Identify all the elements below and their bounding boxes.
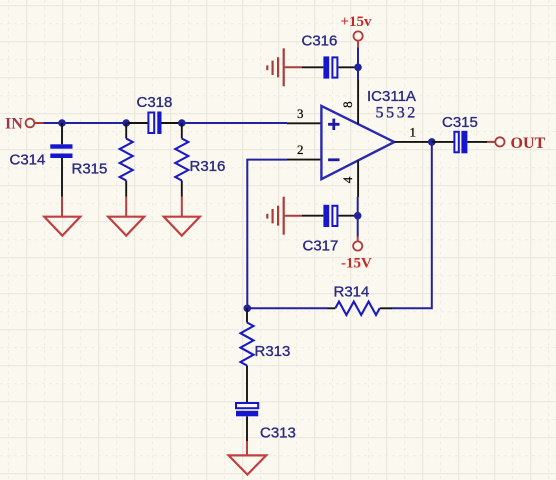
wire -15V rail bbox=[357, 197, 359, 237]
wire to pin 3 bbox=[182, 122, 287, 124]
resistor R316 bbox=[175, 123, 188, 197]
svg-text:IC311A: IC311A bbox=[367, 88, 416, 105]
junction node at R315 bbox=[122, 119, 130, 127]
ground (R315) bbox=[108, 197, 144, 236]
op-amp plus input mark bbox=[328, 119, 339, 130]
op-amp pin 4 lead bbox=[357, 160, 359, 197]
resistor R315 bbox=[120, 123, 133, 197]
power port +15v bbox=[354, 31, 363, 47]
svg-text:R313: R313 bbox=[255, 343, 291, 360]
wire inverting node bbox=[247, 307, 327, 309]
svg-text:1: 1 bbox=[410, 125, 417, 140]
svg-text:R315: R315 bbox=[72, 161, 108, 178]
wire input rail bbox=[44, 122, 128, 124]
capacitor C316 bbox=[302, 56, 358, 78]
svg-text:R316: R316 bbox=[190, 158, 226, 175]
wire feedback bbox=[392, 142, 432, 308]
op-amp U1 pin 3 lead bbox=[287, 122, 322, 124]
svg-text:C316: C316 bbox=[302, 32, 338, 49]
ground (R316) bbox=[164, 197, 200, 236]
svg-text:3: 3 bbox=[297, 106, 304, 121]
resistor R313 bbox=[241, 308, 254, 402]
port OUT bbox=[487, 137, 505, 146]
svg-text:C313: C313 bbox=[260, 425, 296, 442]
capacitor C313 bbox=[236, 403, 258, 441]
resistor R314 bbox=[328, 302, 393, 315]
power port -15V bbox=[353, 237, 362, 251]
op-amp IC311A body bbox=[321, 106, 394, 179]
svg-text:R314: R314 bbox=[334, 284, 370, 301]
op-amp pin 8 lead bbox=[357, 80, 359, 124]
wire +15v rail bbox=[357, 47, 359, 80]
capacitor C315 bbox=[432, 131, 487, 154]
svg-text:C318: C318 bbox=[137, 94, 173, 111]
port IN bbox=[26, 119, 44, 128]
junction node output bbox=[428, 138, 436, 146]
svg-text:5532: 5532 bbox=[376, 105, 418, 122]
svg-text:+15v: +15v bbox=[341, 14, 373, 30]
ground (C314) bbox=[44, 197, 80, 236]
capacitor C318 bbox=[128, 112, 182, 135]
svg-text:IN: IN bbox=[5, 116, 23, 133]
junction node +15v bbox=[354, 64, 362, 72]
wire pin2 net bbox=[247, 160, 287, 309]
junction node at R316 bbox=[178, 119, 186, 127]
capacitor C314 bbox=[50, 123, 72, 197]
junction node inverting bbox=[244, 305, 252, 313]
op-amp minus input mark bbox=[328, 158, 339, 161]
capacitor C317 bbox=[302, 205, 358, 227]
svg-text:8: 8 bbox=[340, 101, 355, 108]
junction node at C314 bbox=[58, 119, 66, 127]
op-amp U1 pin 2 lead bbox=[287, 159, 322, 161]
svg-text:4: 4 bbox=[340, 176, 355, 183]
svg-text:C314: C314 bbox=[10, 152, 46, 169]
svg-text:-15V: -15V bbox=[341, 256, 372, 272]
svg-text:C315: C315 bbox=[442, 114, 478, 131]
svg-text:2: 2 bbox=[297, 142, 304, 157]
ground (C313) bbox=[229, 441, 267, 475]
svg-text:OUT: OUT bbox=[511, 135, 546, 152]
svg-text:C317: C317 bbox=[303, 238, 339, 255]
earth ground (C316) bbox=[267, 48, 301, 86]
earth ground (C317) bbox=[267, 197, 301, 235]
junction node -15V bbox=[354, 212, 362, 220]
op-amp pin 1 output lead bbox=[394, 141, 432, 143]
